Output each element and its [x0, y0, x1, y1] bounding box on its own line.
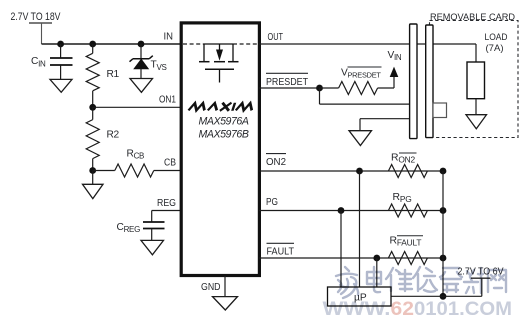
svg-text:REMOVABLE CARD: REMOVABLE CARD: [430, 12, 516, 22]
resistor R1: [86, 44, 119, 107]
wire ON2 to uP: [359, 171, 361, 287]
capacitor CREG: [117, 211, 165, 241]
ground (CIN): [50, 79, 72, 92]
junction dot RON2/rail: [440, 168, 447, 175]
wire load drop: [475, 44, 477, 62]
wire card detect to ground: [360, 119, 410, 131]
connector bar (socket side): [410, 24, 417, 139]
wire load to ground: [475, 99, 477, 115]
junction dot ON2: [356, 168, 363, 175]
svg-text:LOAD: LOAD: [485, 31, 508, 42]
load resistor box LOAD (7A): [467, 62, 485, 99]
connector bar (card side): [426, 25, 433, 138]
capacitor CIN: [31, 44, 73, 79]
ground (CREG): [141, 240, 164, 254]
ground (R2/CB junction): [83, 171, 104, 199]
junction dot RPG/rail: [440, 207, 447, 214]
removable card dashed outline: [430, 21, 519, 138]
wire GND pin: [224, 276, 226, 297]
ground (TVS): [130, 79, 153, 93]
wire PRESDET to card connector: [320, 88, 411, 104]
pin label ON2 (active low): [266, 154, 286, 168]
wire OUT: [259, 43, 476, 45]
svg-text:MAX5976B: MAX5976B: [199, 128, 249, 140]
junction dot TVS: [138, 41, 145, 48]
wire FAULT to uP: [376, 258, 378, 287]
junction dot ON1: [89, 104, 96, 111]
svg-text:2.7V TO 18V: 2.7V TO 18V: [11, 11, 62, 23]
resistor RPG: [388, 192, 427, 217]
junction dot PRESDET: [316, 85, 323, 92]
ground (GND pin): [213, 297, 238, 310]
svg-text:PG: PG: [266, 197, 278, 208]
svg-text:MAX5976A: MAX5976A: [199, 115, 249, 127]
microprocessor uP box: [328, 287, 392, 306]
wire uP supply to rail: [391, 295, 443, 297]
resistor VPRESDET: [320, 67, 395, 95]
svg-text:IN: IN: [164, 31, 174, 42]
node VSUPPLY label 2.7V TO 18V: [11, 11, 62, 44]
junction dot CIN: [57, 41, 64, 48]
ground (card detect): [349, 131, 372, 146]
wire ON2: [259, 170, 443, 172]
junction dot PG: [338, 207, 345, 214]
ground (load): [466, 115, 487, 129]
watermark chinese characters: [336, 267, 506, 298]
resistor RCB: [93, 148, 181, 177]
junction dot rail bottom: [440, 293, 447, 300]
svg-text:ON2: ON2: [266, 157, 286, 168]
svg-text:0101.COM: 0101.COM: [414, 298, 512, 317]
svg-text:REG: REG: [157, 198, 176, 209]
svg-text:R1: R1: [107, 69, 120, 80]
pin label PRESDET (active low): [266, 73, 309, 88]
junction dot R1: [89, 41, 96, 48]
MAXIM logo: [188, 103, 254, 111]
diode TVS (zener clamp): [130, 44, 167, 79]
op-amp U1 MAX5976 IC box: [181, 23, 259, 276]
svg-text:CB: CB: [164, 158, 176, 169]
wire rail to 2.7V TO 6V: [443, 278, 491, 296]
transistor internal MOSFET: [199, 44, 239, 83]
connector notch tab: [433, 103, 447, 118]
wire PG: [259, 210, 443, 212]
svg-text:R2: R2: [107, 129, 120, 140]
junction dot CB: [89, 167, 96, 174]
svg-text:RON2: RON2: [391, 152, 415, 164]
wire REG: [152, 210, 181, 212]
wire PG to uP: [340, 211, 342, 288]
wire PRESDET: [259, 87, 320, 89]
pin label FAULT (active low): [267, 243, 295, 257]
junction dot FAULT: [373, 255, 380, 262]
svg-text:OUT: OUT: [268, 32, 284, 43]
wire internal dashed IN-OUT: [183, 43, 258, 45]
resistor R2: [86, 107, 119, 170]
svg-text:FAULT: FAULT: [267, 246, 295, 257]
wire FAULT: [259, 257, 443, 259]
svg-text:ON1: ON1: [159, 95, 176, 106]
svg-text:WWW.: WWW.: [323, 298, 391, 317]
node VIN arrow: [388, 50, 402, 88]
svg-text:62: 62: [391, 298, 415, 317]
junction dot RFAULT/rail: [440, 255, 447, 262]
watermark www.620101.com: [323, 298, 513, 317]
svg-text:GND: GND: [201, 282, 221, 293]
resistor RON2: [388, 152, 427, 177]
wire ON1: [93, 106, 181, 108]
wire supply rail to IN pin: [42, 43, 182, 45]
svg-text:(7A): (7A): [486, 42, 504, 53]
resistor RFAULT: [388, 235, 427, 264]
svg-text:PRESDET: PRESDET: [266, 77, 309, 88]
svg-text:RFAULT: RFAULT: [390, 235, 422, 247]
svg-text:RPG: RPG: [393, 192, 412, 204]
wire pull-up rail: [442, 171, 444, 296]
